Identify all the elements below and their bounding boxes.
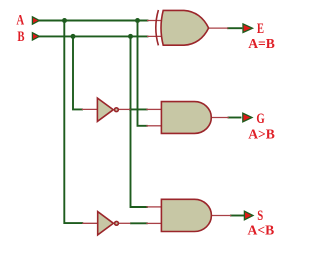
svg-text:B: B [17,29,25,45]
svg-text:A>B: A>B [248,126,275,141]
svg-text:A=B: A=B [248,36,275,51]
svg-text:G: G [256,110,264,126]
svg-text:A<B: A<B [248,222,275,237]
svg-text:E: E [257,20,264,36]
svg-text:S: S [257,208,263,224]
svg-text:A: A [16,12,24,28]
